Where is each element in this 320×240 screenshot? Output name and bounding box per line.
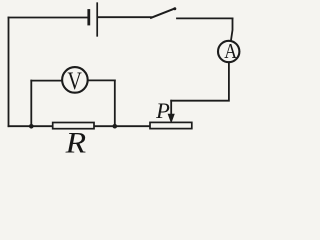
wire: top-left horizontal (left corner to battery) [9,17,87,19]
svg-text:P: P [155,98,170,123]
wire: ammeter down to rheostat slider run [171,63,229,101]
svg-text:A: A [224,39,237,63]
junction node: left (dot) [29,124,34,129]
wire: voltmeter branch horizontal left [31,80,61,82]
svg-text:R: R [65,127,87,156]
voltmeter V [62,67,88,93]
ammeter A [218,41,239,62]
rheostat P slider arm with arrowhead [168,101,174,123]
switch S (open knife switch) [151,7,233,18]
wire: battery to switch [98,16,151,18]
svg-text:V: V [67,68,82,95]
wire: voltmeter branch horizontal right [88,79,115,81]
wire: bottom horizontal (left corner to rheostat) [9,125,152,127]
rheostat P body [150,122,192,128]
resistor R body [53,123,94,129]
battery cell [89,3,97,36]
wire: left vertical side [8,18,10,127]
junction node: right (dot) [113,124,118,129]
wire: voltmeter branch left vertical [30,81,32,127]
wire: top-right corner down to ammeter [231,18,233,40]
wire: voltmeter branch right vertical [114,80,116,126]
